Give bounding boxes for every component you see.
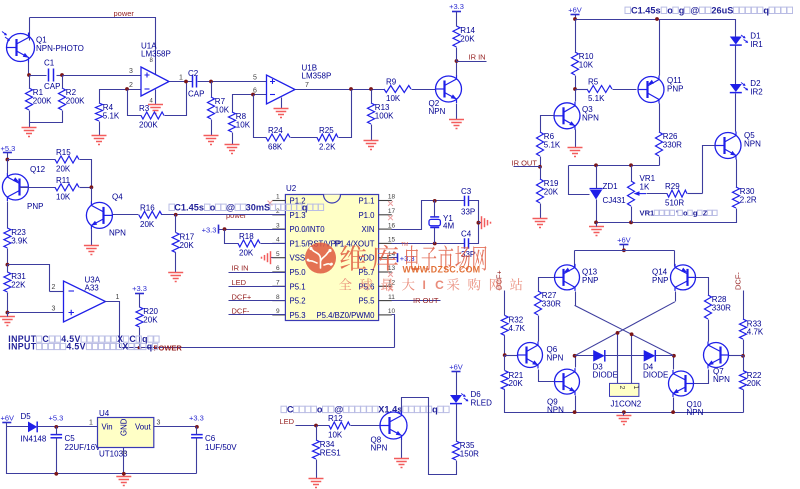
transistor Q8 <box>371 411 408 453</box>
wire +3.3 to U2 pin3 <box>219 229 286 231</box>
wire +6V stem <box>623 245 625 251</box>
wire U1A output <box>170 81 193 83</box>
svg-text:10K: 10K <box>386 94 401 103</box>
wire to Q13 emitter <box>574 251 576 267</box>
wire IR OUT stub <box>514 166 541 168</box>
wire to Q14 emitter <box>674 251 676 267</box>
svg-text:+3.3: +3.3 <box>400 254 415 263</box>
ground crystal sideways <box>482 216 491 229</box>
svg-text:4.7K: 4.7K <box>747 328 764 337</box>
wire R6 to node <box>540 157 542 167</box>
node rail Q9 <box>573 410 577 414</box>
wire +5.3 stem <box>7 153 9 161</box>
node U1A out/feedback <box>184 80 188 84</box>
wire R8 to U1B pin6 <box>233 95 267 113</box>
wire R13 to ground <box>371 125 373 141</box>
svg-text:26uS: 26uS <box>711 6 733 16</box>
node pin2/feedback <box>125 87 129 91</box>
node C2/R7 <box>209 80 213 84</box>
svg-text:R12: R12 <box>328 414 343 423</box>
wire R1/R2 bottoms <box>30 111 63 123</box>
svg-text:20K: 20K <box>143 316 158 325</box>
wire R23 to node <box>7 249 9 265</box>
svg-text:330R: 330R <box>712 304 731 313</box>
wire D6 to R35 <box>456 404 458 442</box>
wire Q9 collector to node <box>575 356 577 368</box>
connector J1 CON2 <box>610 383 642 408</box>
svg-text:P5.7: P5.7 <box>358 268 374 277</box>
resistor R12 <box>328 414 350 440</box>
wire Q8 collector loop <box>402 398 457 475</box>
U2 pin 2 P1.3 <box>272 208 305 220</box>
svg-text:NPN: NPN <box>713 375 730 384</box>
capacitor C4 <box>461 230 475 260</box>
svg-text:X: X <box>122 342 128 352</box>
wire Q12 base to R11 <box>20 187 56 189</box>
wire U1B gnd pin <box>281 98 283 109</box>
svg-text:7: 7 <box>305 82 309 89</box>
svg-text:17: 17 <box>388 208 396 215</box>
svg-text:NPN: NPN <box>547 354 564 363</box>
transistor Q4 <box>86 193 126 238</box>
svg-text:R16: R16 <box>140 203 155 212</box>
svg-text:IN4148: IN4148 <box>21 435 47 444</box>
resistor R16 <box>139 203 162 229</box>
svg-text:RES1: RES1 <box>320 449 341 458</box>
svg-text:C: C <box>129 334 136 344</box>
transistor Q10 <box>669 370 704 417</box>
wire to D5 <box>7 426 29 428</box>
node R18 tap <box>223 227 227 231</box>
wire U1A pin4 to ground <box>155 90 157 105</box>
ground under R7 <box>204 136 219 145</box>
U2 pin 17 P1.0 <box>358 208 395 220</box>
wire diagonal Q14 to left node <box>575 302 675 356</box>
svg-text:P1.4/XOUT: P1.4/XOUT <box>335 239 375 248</box>
wire node to U1A pin3 <box>63 75 141 77</box>
U2 pin 7 P5.1 <box>272 280 305 292</box>
no-connect X pin13 <box>388 272 393 277</box>
wire R28 to Q7 collector <box>708 320 710 342</box>
diode D5 IN4148 <box>21 412 47 444</box>
resistor R3 <box>139 104 164 130</box>
wire U4 GND down <box>123 448 125 477</box>
wire Q11 collector to R26 <box>659 104 661 133</box>
wire R25 up to output <box>339 90 352 138</box>
wire net IR IN <box>229 272 286 274</box>
node Q7 base <box>741 354 745 358</box>
wire R30 to bottom rail <box>632 209 737 223</box>
svg-text:IR2: IR2 <box>750 88 763 97</box>
capacitor C5 <box>51 434 102 452</box>
transistor Q11 <box>638 76 683 104</box>
wire R4 to U1A pin2 <box>100 90 141 104</box>
node R15/R11/Q4 <box>90 185 94 189</box>
svg-text:C2: C2 <box>188 69 199 78</box>
op-amp U1B <box>267 64 332 105</box>
resistor R23 <box>4 228 28 248</box>
wire node to R7 <box>211 82 213 98</box>
svg-text:power: power <box>114 9 135 18</box>
wire P5.5 stub <box>392 300 441 302</box>
node out/feedback <box>349 87 353 91</box>
svg-text:22K: 22K <box>11 281 26 290</box>
wire bottom rail <box>505 390 744 413</box>
U2 pin 12 P5.6 <box>358 280 395 292</box>
resistor R10 <box>572 52 595 75</box>
svg-text:J1CON2: J1CON2 <box>611 400 642 409</box>
svg-text:10K: 10K <box>579 61 594 70</box>
wire C1 to node <box>57 75 63 77</box>
wire node to R19 <box>540 167 542 180</box>
U2 pin 4 P1.5/RST/VPP <box>272 237 341 249</box>
svg-text:NPN: NPN <box>429 107 446 116</box>
wire R11 to node <box>80 187 92 189</box>
wire power rail to U1A pin8 <box>30 18 156 75</box>
wire U1B output to R9 <box>296 89 385 91</box>
ground VSS sideways <box>262 251 271 264</box>
ground under Q2 <box>449 120 464 129</box>
resistor R7 <box>208 97 230 119</box>
svg-text:I C: I C <box>423 278 447 292</box>
U2 pin 1 P1.2 <box>272 194 305 206</box>
wire R7 to ground <box>211 120 213 136</box>
svg-text:+6V: +6V <box>449 363 463 372</box>
svg-text:20K: 20K <box>747 379 762 388</box>
svg-text:IR IN: IR IN <box>469 53 486 62</box>
svg-text:C1.45s: C1.45s <box>631 6 661 16</box>
wire +6V to D6 <box>456 372 458 396</box>
wire R24 to R25 <box>291 137 318 139</box>
svg-text:VSS: VSS <box>290 254 306 263</box>
resistor R22 <box>740 371 763 390</box>
wire down to Q4 collector <box>91 188 93 202</box>
svg-text:PNP: PNP <box>27 202 43 211</box>
svg-text:DIODE: DIODE <box>593 370 618 379</box>
wire Q13 collector <box>575 292 577 306</box>
svg-text:100K: 100K <box>375 112 394 121</box>
svg-text:2: 2 <box>52 284 56 291</box>
svg-text:IR OUT: IR OUT <box>413 296 439 305</box>
ground under R19 <box>533 219 548 228</box>
svg-text:P5.0: P5.0 <box>290 268 307 277</box>
svg-text:R25: R25 <box>319 126 334 135</box>
svg-text:P1.0: P1.0 <box>358 211 375 220</box>
wire +6V rail <box>575 250 675 252</box>
wire ZD1 anode <box>596 200 598 223</box>
svg-text:20K: 20K <box>56 165 71 174</box>
wire bottom return rail <box>7 427 197 474</box>
U2 pin 13 P5.7 <box>358 265 395 277</box>
resistor R17 <box>172 233 195 253</box>
svg-text:20K: 20K <box>544 188 559 197</box>
LED D6 <box>450 390 492 408</box>
node R10/R5/Q3 <box>573 87 577 91</box>
op-amp U1A <box>141 42 171 105</box>
node +5.3 <box>54 425 58 429</box>
wire R14 to node <box>456 48 458 62</box>
wire Q10 emitter to rail <box>673 398 675 413</box>
wire node to C6 <box>196 427 198 435</box>
svg-text:+5.3: +5.3 <box>49 414 64 423</box>
wire Q11 emitter to rail <box>659 20 661 76</box>
svg-text:6: 6 <box>276 265 280 272</box>
U2 pin 14 VDD <box>358 251 395 263</box>
wire bottom rail <box>597 222 737 224</box>
power +6V regulator <box>1 414 15 423</box>
svg-text:C3: C3 <box>461 187 472 196</box>
wire Q6 emitter to Q9 base <box>539 370 555 382</box>
wire node to R17 <box>175 215 177 233</box>
node Q11 emitter rail <box>655 17 659 21</box>
ground under R13 <box>364 141 379 150</box>
wire node to R22 <box>743 356 745 371</box>
wire Q7 emitter to Q10 base <box>694 370 709 384</box>
svg-text:VR1: VR1 <box>640 209 656 218</box>
svg-text:PNP: PNP <box>652 276 668 285</box>
svg-text:68K: 68K <box>268 143 283 152</box>
regulator U4 UT1033 <box>98 409 154 459</box>
U2 pin 18 P1.1 <box>358 194 395 206</box>
transistor Q1 <box>7 33 84 63</box>
svg-text:30mS: 30mS <box>246 203 271 213</box>
resistor R20 <box>136 307 159 327</box>
wire node to C1 <box>30 75 47 77</box>
svg-text:DCF-: DCF- <box>232 307 250 316</box>
transistor Q5 <box>715 131 761 160</box>
svg-text:RLED: RLED <box>471 399 493 408</box>
node R17 <box>174 213 178 217</box>
wire +6V stem <box>6 423 8 427</box>
wire node to R1 <box>29 76 31 89</box>
svg-text:LM358P: LM358P <box>302 72 332 81</box>
svg-text:22UF/16V: 22UF/16V <box>65 443 102 452</box>
wire Q3 collector to node <box>575 90 577 102</box>
node +5.3 <box>6 158 10 162</box>
svg-text:R9: R9 <box>386 78 397 87</box>
svg-text:C4: C4 <box>461 230 472 239</box>
wire ZD1 cathode <box>596 166 598 189</box>
svg-text:P5.5: P5.5 <box>358 297 375 306</box>
resistor R2 <box>59 88 86 110</box>
wire VSS stub <box>271 257 273 259</box>
resistor R31 <box>4 272 27 292</box>
node R20 <box>138 346 142 350</box>
resistor R27 <box>535 291 562 315</box>
svg-text:IR IN: IR IN <box>232 264 249 273</box>
wire R29 right <box>688 193 703 195</box>
ground bridge <box>616 416 631 425</box>
ground U1B <box>274 109 289 118</box>
wire node to R31 <box>7 265 9 273</box>
svg-text:LED: LED <box>232 278 247 287</box>
resistor R4 <box>96 103 120 121</box>
svg-text:+3.3: +3.3 <box>132 284 147 293</box>
watermark text 全球 <box>339 278 373 290</box>
svg-text:330R: 330R <box>663 141 682 150</box>
wire R26 to rail <box>659 157 661 166</box>
svg-text:4.7K: 4.7K <box>509 324 526 333</box>
capacitor C3 <box>461 187 475 217</box>
node left bridge <box>573 354 577 358</box>
node rail gnd <box>622 410 626 414</box>
svg-text:1: 1 <box>632 386 639 390</box>
capacitor C2 <box>188 69 204 99</box>
wire POWER rail <box>120 347 395 349</box>
svg-text:LED: LED <box>280 417 295 426</box>
wire D5 to U4 <box>38 426 98 428</box>
wire R12 to Q8 base <box>351 425 381 427</box>
svg-text:TM: TM <box>401 242 408 248</box>
svg-text:CAP: CAP <box>44 82 60 91</box>
svg-text:3.9K: 3.9K <box>11 237 28 246</box>
resistor R18 <box>238 232 260 258</box>
ground under Q8 <box>394 459 409 468</box>
wire Q2 emitter <box>456 104 458 120</box>
wire R5 to Q11 base <box>613 89 637 91</box>
svg-text:20K: 20K <box>509 379 524 388</box>
wire wiper to R29 <box>647 193 668 195</box>
wire Q8 emitter <box>401 440 403 459</box>
wire U3A out down <box>106 302 120 348</box>
wire net DCF- <box>229 314 286 316</box>
IC U2 body <box>285 184 378 321</box>
svg-text:IR1: IR1 <box>750 40 763 49</box>
wire C5 to rail <box>56 438 58 474</box>
svg-text:11: 11 <box>388 294 395 301</box>
resistor R11 <box>55 176 79 202</box>
svg-text:NPN: NPN <box>687 408 704 417</box>
svg-text:CAP: CAP <box>188 90 204 99</box>
wire R20 to rail <box>139 328 141 348</box>
node IR IN <box>455 59 459 63</box>
watermark text 采购网站 <box>447 278 522 290</box>
svg-text:P0.0/INT0: P0.0/INT0 <box>290 225 326 234</box>
wire gnd stem <box>7 313 9 317</box>
wire D4 to node <box>656 355 674 357</box>
svg-text:XIN: XIN <box>362 225 375 234</box>
photo arrows into Q1 <box>2 32 10 41</box>
svg-text:Vout: Vout <box>135 423 151 432</box>
watermark text 维库 <box>340 245 398 271</box>
transistor Q2 <box>429 75 462 116</box>
svg-text:20K: 20K <box>239 248 254 257</box>
wire node to U3A pin3 <box>8 312 64 314</box>
svg-text:1: 1 <box>179 75 183 82</box>
wire Q1 collector <box>29 18 31 41</box>
svg-text:3: 3 <box>276 222 280 229</box>
svg-text:NPN: NPN <box>582 114 599 123</box>
wire XIN to crystal rail <box>392 201 465 230</box>
wire R10 to node <box>575 76 577 90</box>
svg-text:R18: R18 <box>239 232 254 241</box>
svg-text:U4: U4 <box>99 409 110 418</box>
svg-text:U2: U2 <box>286 184 297 193</box>
ground under R4 <box>92 136 107 145</box>
svg-text:VDD: VDD <box>358 254 375 263</box>
node C1/R2 <box>60 73 64 77</box>
wire node to R13 <box>371 90 373 104</box>
wire ZD1 ref <box>569 166 590 195</box>
svg-text:7: 7 <box>276 280 280 287</box>
wire feedback down to R24 <box>254 95 267 138</box>
svg-text:R5: R5 <box>588 78 599 87</box>
svg-text:PNP: PNP <box>667 85 683 94</box>
resistor R32 <box>501 315 525 335</box>
crystal Y1 <box>429 214 454 231</box>
wire VDD stub <box>392 257 398 259</box>
wire R27 to Q6 collector <box>538 316 540 342</box>
power +6V bridge <box>617 236 631 245</box>
svg-text:5: 5 <box>276 251 280 258</box>
wire rail to R10 <box>575 20 577 53</box>
ground under R34 <box>309 479 324 488</box>
power +3.3 VDD <box>398 253 415 263</box>
wire R34 to ground <box>316 460 318 479</box>
node C5 rail <box>54 472 58 476</box>
svg-text:DCF+: DCF+ <box>232 292 252 301</box>
wire Q12 collector to R23 <box>7 202 9 229</box>
svg-text:1: 1 <box>89 420 93 427</box>
wire +6V rail to D1 <box>576 20 736 37</box>
svg-text:NPN: NPN <box>109 229 126 238</box>
transistor Q7 <box>704 342 731 385</box>
node crystal bottom <box>433 242 437 246</box>
svg-text:Q4: Q4 <box>112 193 123 202</box>
wire D3 to D4 <box>605 355 645 357</box>
svg-text:NPN: NPN <box>547 405 564 414</box>
svg-text:4M: 4M <box>443 222 454 231</box>
wire net LED <box>229 286 286 288</box>
U2 pin 5 VSS <box>272 251 305 263</box>
wire DCF- to R33 <box>743 291 745 320</box>
no-connect X pin12 <box>388 286 393 291</box>
wire rail to VR1 <box>631 166 633 182</box>
node R23/R31 <box>6 263 10 267</box>
svg-text:20K: 20K <box>460 35 475 44</box>
svg-text:+6V: +6V <box>1 414 15 423</box>
resistor R35 <box>453 441 480 460</box>
resistor R6 <box>537 132 561 156</box>
svg-text:5: 5 <box>253 75 257 82</box>
power +6V D6 <box>449 363 463 372</box>
svg-text:10K: 10K <box>215 106 230 115</box>
ground under R8 <box>225 145 240 154</box>
svg-text:10K: 10K <box>56 192 71 201</box>
svg-text:3: 3 <box>157 420 161 427</box>
no-connect X pin18 <box>388 201 393 206</box>
wire gnd stem <box>623 413 625 416</box>
wire R29 to Q5 base <box>703 146 716 194</box>
node right bridge <box>672 354 676 358</box>
wire C3/C4 right <box>469 201 479 244</box>
wire +3.3 to R20 <box>139 294 141 308</box>
wire R31 to node <box>7 293 9 313</box>
node Q6 base <box>503 353 507 357</box>
node IR OUT <box>538 165 542 169</box>
potentiometer VR1 <box>628 174 656 206</box>
svg-text:5.1K: 5.1K <box>103 112 120 121</box>
svg-text:150R: 150R <box>460 450 479 459</box>
capacitor C6 <box>191 434 237 452</box>
wire DCF+ to R32 <box>504 291 506 316</box>
wire R17 to ground <box>175 253 177 273</box>
svg-text:P5.3: P5.3 <box>290 311 306 320</box>
svg-text:330R: 330R <box>542 300 561 309</box>
node gnd rail <box>122 472 126 476</box>
svg-text:20K: 20K <box>140 220 155 229</box>
ground regulator <box>116 477 131 486</box>
